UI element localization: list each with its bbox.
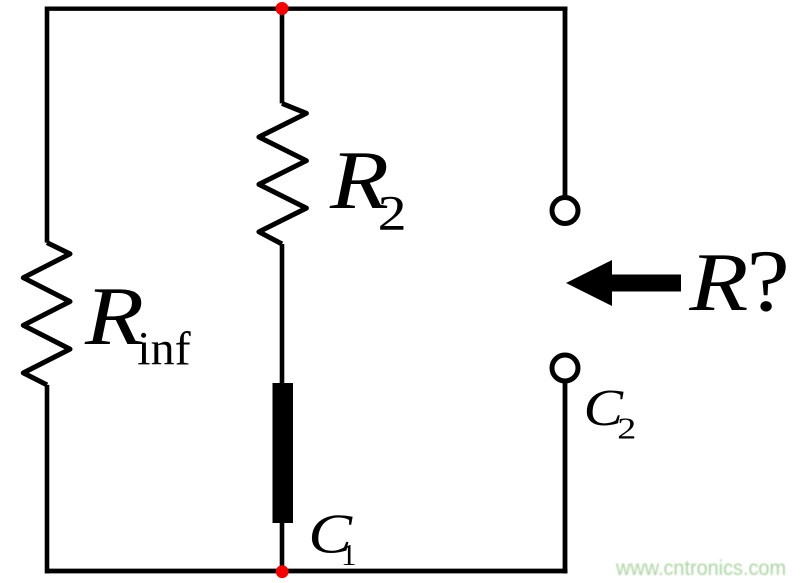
wire middle branch lower [280, 523, 285, 571]
svg-text:www.cntronics.com: www.cntronics.com [615, 557, 786, 580]
capacitor C1 body (thick bar) [273, 383, 294, 523]
svg-text:2: 2 [617, 411, 636, 446]
wire left branch lower [45, 385, 50, 574]
wire middle branch upper [280, 9, 285, 104]
wire bottom horizontal [45, 569, 568, 574]
svg-text:?: ? [747, 233, 790, 330]
svg-text:1: 1 [341, 537, 357, 572]
node top junction (red dot) [276, 2, 289, 15]
node bottom junction (red dot) [276, 565, 289, 578]
svg-text:R: R [688, 235, 748, 329]
wire right branch upper [563, 7, 568, 197]
terminal circle lower [552, 355, 578, 381]
terminal circle upper [552, 198, 578, 224]
resistor R2 [259, 103, 307, 244]
svg-text:R: R [84, 269, 144, 363]
wire top horizontal [45, 6, 568, 10]
wire middle branch between R2 and C1 [280, 244, 285, 384]
arrow pointing to right branch (R? indicator) [566, 260, 681, 306]
wire right branch lower [563, 383, 568, 574]
wire left branch upper [45, 7, 50, 243]
resistor Rinf [23, 243, 70, 385]
svg-text:2: 2 [378, 185, 407, 240]
svg-text:inf: inf [137, 323, 190, 376]
